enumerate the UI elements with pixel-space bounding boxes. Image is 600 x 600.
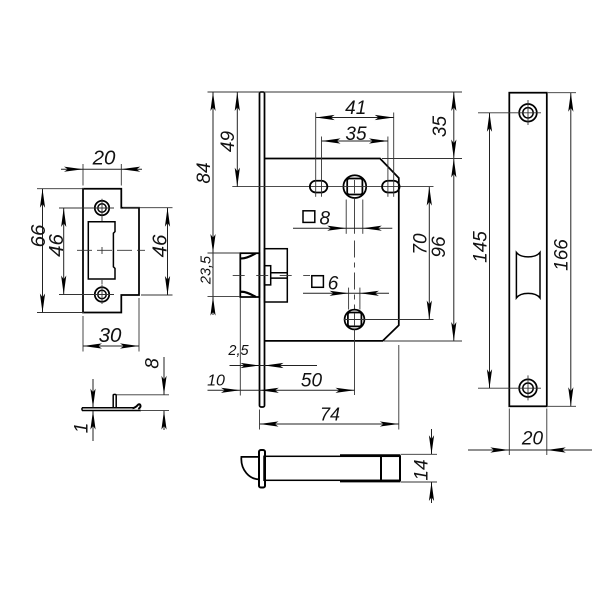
svg-text:35: 35: [430, 116, 451, 138]
svg-text:166: 166: [552, 239, 573, 271]
dim 35 right vertical: [453, 92, 455, 159]
latch housing: [265, 249, 288, 302]
dim 96: [453, 159, 455, 342]
vertical centerline between hubs: [354, 241, 356, 310]
bolt faceplate bar: [259, 450, 265, 488]
top screw: [95, 201, 109, 215]
svg-text:35: 35: [345, 124, 367, 145]
right slot: [382, 181, 400, 193]
slot extension lines: [315, 113, 317, 197]
dim square-6: [312, 276, 324, 288]
svg-text:145: 145: [471, 231, 492, 263]
top hub circle: [343, 175, 366, 198]
bolt rear bold bottom: [340, 480, 400, 482]
faceplate rect: [509, 93, 547, 407]
svg-text:84: 84: [194, 162, 215, 183]
svg-text:41: 41: [345, 98, 366, 119]
dim 84: [212, 92, 214, 253]
square-6 face lines: [348, 288, 350, 310]
svg-text:50: 50: [301, 371, 323, 392]
lock case outline: [265, 159, 399, 341]
top extension line y92: [208, 91, 463, 93]
centerline vertical dashes: [101, 218, 103, 222]
bottom screw: [519, 379, 537, 397]
dim 10 and 50: [208, 389, 355, 391]
dim 70: [428, 187, 430, 320]
dim 14: [401, 453, 438, 455]
top screw: [519, 104, 537, 122]
square-8 face lines: [345, 200, 347, 234]
latch cutout bowtie: [516, 252, 540, 298]
bottom hub centerline: [344, 319, 434, 321]
svg-text:8: 8: [143, 358, 164, 369]
ext case top right: [382, 158, 462, 160]
dim 30: [82, 316, 84, 352]
dim 41: [316, 117, 394, 119]
centerline horizontal: [77, 249, 145, 251]
hub row centerline: [232, 186, 433, 188]
bolt body: [264, 456, 400, 480]
dim 66: [37, 188, 84, 190]
bottom hub circle: [345, 310, 365, 330]
dim 8 profile: [116, 394, 169, 396]
strike plate outline: [83, 189, 139, 313]
latch head: [240, 253, 259, 297]
svg-text:1: 1: [72, 423, 93, 434]
dim 49: [236, 92, 238, 187]
latch bevel bottom: [240, 292, 256, 297]
latch bevel top: [240, 253, 256, 258]
svg-text:49: 49: [218, 131, 239, 153]
bolt tip: [241, 457, 259, 480]
top hub square: [347, 179, 362, 195]
svg-text:96: 96: [429, 236, 450, 258]
ext case bottom right: [384, 340, 462, 342]
dim 23,5: [212, 253, 214, 315]
svg-text:2,5: 2,5: [227, 343, 249, 359]
hub extension line down: [354, 329, 356, 395]
bolt rear bold top: [340, 454, 400, 456]
svg-text:74: 74: [320, 405, 340, 425]
bottom hub square: [348, 313, 362, 327]
dim 35 top: [322, 140, 388, 142]
dim 20: [82, 164, 84, 186]
svg-text:23,5: 23,5: [199, 255, 215, 285]
svg-text:46: 46: [45, 234, 68, 257]
latch tail bar: [271, 272, 288, 274]
dim square-8: [303, 211, 315, 223]
svg-text:14: 14: [412, 459, 433, 480]
left slot: [310, 181, 327, 193]
svg-text:30: 30: [99, 324, 122, 347]
latch tail block: [265, 266, 271, 285]
dim 20 bottom: [508, 409, 510, 456]
latch centerline: [233, 274, 310, 276]
profile tab: [113, 394, 116, 407]
dim 46 left: [59, 207, 91, 209]
bolt cap divider: [380, 455, 382, 481]
dim 74: [260, 423, 399, 425]
strike opening with lip: [88, 222, 115, 279]
faceplate bar: [260, 92, 265, 407]
profile plate with hook: [82, 408, 141, 411]
bottom hub cross vertical: [354, 313, 356, 326]
dim 2,5: [230, 365, 318, 367]
svg-text:46: 46: [149, 234, 172, 257]
bolt cap end: [399, 455, 401, 481]
svg-text:20: 20: [521, 429, 544, 450]
dim 1 profile: [92, 379, 94, 407]
dim 166: [548, 92, 576, 94]
svg-text:10: 10: [207, 373, 225, 390]
svg-text:70: 70: [411, 233, 432, 255]
svg-text:20: 20: [92, 147, 116, 170]
bottom screw: [95, 287, 109, 301]
dim 46 right: [123, 207, 173, 209]
top hub cross vertical: [354, 180, 356, 193]
dim 145: [478, 112, 516, 114]
